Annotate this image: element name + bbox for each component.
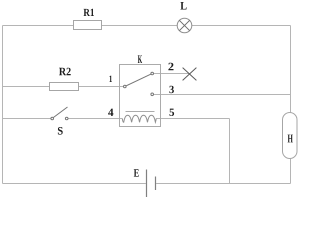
resistor R1	[74, 21, 102, 30]
relay switch blade pin1-pin2	[126, 74, 151, 86]
relay K box	[120, 65, 161, 127]
relay coil winding	[122, 115, 156, 122]
label pin 3	[169, 86, 173, 94]
wire switch S to relay coil	[68, 118, 122, 120]
wire pin 5 vertical down	[229, 119, 231, 184]
wire right vertical	[290, 26, 292, 114]
label pin 5	[170, 109, 175, 116]
resistor R2	[50, 83, 79, 91]
battery E short plate	[155, 177, 157, 191]
label S	[58, 127, 63, 135]
wire relay pin 5 horizontal	[156, 118, 229, 120]
label K	[138, 55, 142, 63]
label pin 1	[109, 76, 112, 82]
label E	[134, 169, 139, 176]
relay pin 1 contact	[124, 85, 127, 88]
label R1	[83, 9, 93, 16]
label pin 2	[168, 63, 173, 71]
wire left vertical	[2, 26, 4, 184]
wire relay pin 2 to X mark	[154, 73, 190, 75]
switch S right contact	[65, 117, 68, 120]
switch S left contact	[51, 117, 54, 120]
wire left to switch S	[3, 118, 51, 120]
wire bottom left to battery	[3, 183, 146, 185]
label pin 4	[108, 109, 113, 116]
wire H bottom lead	[290, 159, 292, 184]
wire battery to bottom right corner	[156, 183, 290, 185]
switch S blade	[53, 107, 67, 118]
battery E long plate	[146, 170, 148, 198]
wire top horizontal	[3, 25, 291, 27]
label R2	[59, 68, 71, 76]
relay pin 2 contact	[151, 72, 154, 75]
bell H capsule	[283, 113, 298, 159]
relay pin 3 contact	[151, 93, 154, 96]
wire relay pin 3 to right vertical	[154, 94, 291, 96]
X open-terminal mark at pin 2	[183, 68, 197, 81]
relay coil core line	[126, 111, 155, 113]
label L	[180, 2, 186, 10]
label H	[288, 135, 293, 143]
lamp L	[177, 18, 192, 33]
wire R2 row to relay pin 1	[3, 86, 124, 88]
